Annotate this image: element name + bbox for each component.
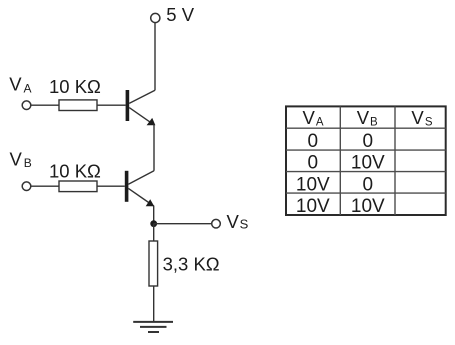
svg-text:10V: 10V: [296, 196, 330, 217]
transistor Q1: [126, 90, 156, 125]
wire: node to VS terminal: [154, 223, 212, 225]
5V supply terminal: [151, 13, 160, 22]
wire: 5V terminal to Q1 collector: [154, 23, 156, 91]
table row line 1: [286, 127, 446, 129]
resistor R1: [59, 100, 97, 111]
resistor R3: [149, 241, 158, 286]
output terminal VS: [212, 219, 221, 228]
transistor Q2: [125, 171, 154, 207]
wire: R1 to Q1 base: [97, 104, 126, 106]
svg-text:0: 0: [308, 153, 319, 174]
svg-text:VA: VA: [302, 107, 323, 129]
node: output junction: [150, 220, 157, 227]
svg-text:10V: 10V: [351, 153, 385, 174]
wire: node to R3: [153, 224, 155, 241]
input terminal VA: [22, 101, 31, 110]
table row line 2: [286, 149, 446, 151]
svg-text:10V: 10V: [296, 174, 330, 195]
svg-text:0: 0: [363, 131, 374, 152]
table row line 4: [286, 192, 446, 194]
resistor R2: [59, 181, 97, 192]
svg-text:10V: 10V: [351, 196, 385, 217]
svg-text:VS: VS: [411, 107, 433, 129]
svg-text:10 KΩ: 10 KΩ: [49, 161, 101, 182]
svg-text:B: B: [24, 156, 32, 170]
wire: R2 to Q2 base: [97, 185, 125, 187]
table column line 1: [339, 106, 341, 215]
svg-text:A: A: [24, 81, 32, 95]
wire: R3 to ground: [153, 286, 155, 322]
wire: Q1 emitter to Q2 collector: [153, 124, 155, 170]
truth table frame: [286, 106, 446, 215]
wire: VB terminal to R2: [31, 185, 59, 187]
ground: [133, 322, 173, 332]
wire: VA terminal to R1: [31, 104, 59, 106]
svg-text:VB: VB: [357, 107, 378, 129]
svg-text:V: V: [9, 74, 22, 95]
svg-text:V: V: [10, 149, 23, 170]
table column line 2: [394, 106, 396, 215]
svg-text:5 V: 5 V: [166, 4, 194, 25]
input terminal VB: [22, 182, 31, 191]
svg-text:3,3 KΩ: 3,3 KΩ: [163, 254, 220, 275]
svg-text:0: 0: [363, 174, 374, 195]
wire: Q2 emitter to output node: [153, 206, 155, 224]
svg-text:0: 0: [308, 131, 319, 152]
svg-text:S: S: [240, 217, 249, 232]
svg-text:10 KΩ: 10 KΩ: [49, 76, 101, 97]
table row line 3: [286, 171, 446, 173]
svg-text:V: V: [227, 211, 240, 232]
